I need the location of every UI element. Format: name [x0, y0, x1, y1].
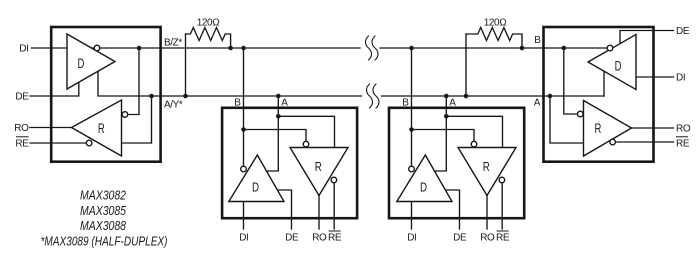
junction node A at U1 — [149, 94, 154, 99]
junction R2 left lead on A bus — [464, 94, 469, 99]
wire RO output U4 — [632, 127, 674, 129]
svg-text:RE: RE — [496, 233, 510, 244]
U3 internal: B to receiver inverting input — [412, 130, 475, 141]
U2 RO pin wire — [318, 196, 320, 230]
junction R2 right lead on B bus — [520, 46, 525, 51]
wire DE input U4 — [620, 31, 674, 44]
svg-text:120Ω: 120Ω — [197, 18, 220, 29]
driver U4 D triangle — [588, 35, 636, 90]
svg-text:RO: RO — [14, 123, 29, 134]
overline RE U4 — [676, 136, 688, 138]
svg-text:R: R — [315, 161, 322, 175]
wire A node down to U4 receiver input — [550, 96, 584, 143]
junction U2 B tap — [241, 46, 246, 51]
svg-text:DI: DI — [676, 73, 685, 84]
svg-text:A: A — [534, 98, 541, 109]
wire A node down to U2 — [267, 96, 279, 171]
svg-text:RE: RE — [15, 139, 29, 150]
svg-text:MAX3088: MAX3088 — [80, 218, 127, 233]
U2 internal: B to receiver inverting input — [244, 130, 307, 141]
bubble U2 driver inverting output — [241, 166, 247, 172]
U3 RE pin wire — [501, 183, 503, 229]
svg-text:B: B — [534, 35, 541, 46]
bubble U2 RE enable — [331, 177, 337, 183]
wire A bus right of break into right box — [382, 95, 605, 97]
driver U2 D triangle — [229, 155, 284, 202]
junction node B at U1 — [137, 46, 142, 51]
wire B node down to U2 — [243, 48, 245, 166]
wire RE input U1 — [30, 142, 86, 144]
svg-text:MAX3085: MAX3085 — [80, 203, 127, 218]
wire node B junction down to U1 receiver inverting input — [128, 48, 139, 115]
bubble U4 driver inverting output — [607, 45, 613, 51]
wire A node down to U3 — [435, 96, 447, 171]
wire RE input U4 — [616, 141, 674, 143]
overline RE U3 — [497, 230, 509, 232]
junction U3 A tap — [444, 94, 449, 99]
resistor R1 120ohm left lead to A line — [185, 34, 187, 96]
receiver U1 R triangle — [72, 100, 122, 156]
receiver U4 R triangle — [584, 101, 632, 157]
svg-text:RE: RE — [328, 233, 342, 244]
svg-text:RE: RE — [676, 139, 690, 150]
U3 RO pin wire — [486, 196, 488, 230]
svg-text:B: B — [402, 98, 409, 109]
junction U3 internal B node — [409, 127, 414, 132]
wire U4 driver Y output to A node — [603, 71, 605, 96]
svg-text:R: R — [595, 120, 602, 136]
svg-text:D: D — [78, 55, 85, 71]
bubble U4 RE enable — [610, 139, 616, 145]
junction U2 A tap — [276, 94, 281, 99]
svg-text:RO: RO — [312, 233, 327, 244]
right transceiver box U4 — [544, 27, 654, 162]
resistor R2 body — [466, 28, 522, 49]
junction R1 right lead on B bus — [228, 46, 233, 51]
wire DI input U4 — [636, 76, 674, 78]
U2 internal: A to receiver input — [278, 116, 334, 147]
junction node B at U4 — [562, 46, 567, 51]
junction U3 internal A node — [444, 114, 449, 119]
receiver U2 R triangle — [290, 148, 348, 196]
middle transceiver box U3 — [389, 108, 524, 218]
break symbol top bus — [366, 36, 372, 60]
U3 DI pin wire — [411, 202, 413, 230]
middle transceiver box U2 — [222, 108, 357, 218]
wire DE input U1 — [30, 82, 79, 96]
wire RO output U1 — [30, 127, 72, 129]
U3 internal: A to receiver input — [446, 116, 502, 147]
svg-text:D: D — [420, 181, 427, 195]
overline RE U1 — [16, 136, 29, 138]
wire DI input U1 — [32, 47, 68, 49]
junction R1 left lead on A bus — [183, 94, 188, 99]
svg-text:120Ω: 120Ω — [484, 18, 507, 29]
break symbol bottom bus — [367, 84, 373, 108]
wire U1 driver Y output to A bus — [98, 71, 152, 96]
resistor R1 body — [186, 28, 231, 49]
wire B node down to U3 — [411, 48, 413, 166]
svg-text:A: A — [449, 98, 456, 109]
wire B bus right of break to right box — [380, 47, 617, 49]
svg-text:DI: DI — [239, 233, 248, 244]
bubble U1 receiver inverting input — [122, 112, 128, 118]
svg-text:A: A — [281, 98, 288, 109]
wire B node down to U4 receiver inverting input — [564, 48, 577, 114]
junction node A at U4 — [548, 94, 553, 99]
bubble U1 RE enable — [86, 140, 92, 146]
wire U1 driver inverting output to B bus — [90, 47, 361, 49]
svg-text:D: D — [615, 58, 622, 74]
junction U2 internal A node — [276, 114, 281, 119]
junction U3 B tap — [409, 46, 414, 51]
left transceiver box U1 — [51, 27, 160, 162]
U3 DE pin wire — [445, 190, 459, 229]
wire A bus from U1 to break — [152, 95, 362, 97]
wire node A down to U1 receiver input — [122, 96, 152, 143]
svg-text:DE: DE — [453, 233, 467, 244]
bubble U1 driver inverting output — [94, 45, 100, 51]
junction U2 internal B node — [241, 127, 246, 132]
svg-text:D: D — [252, 181, 259, 195]
bubble U3 receiver inverting input — [471, 141, 477, 147]
driver U1 D triangle — [67, 34, 115, 89]
bubble U3 RE enable — [499, 177, 505, 183]
bubble U2 receiver inverting input — [303, 141, 309, 147]
svg-text:A/Y*: A/Y* — [164, 100, 183, 111]
svg-text:*MAX3089 (HALF-DUPLEX): *MAX3089 (HALF-DUPLEX) — [41, 234, 168, 249]
driver U3 D triangle — [397, 155, 452, 202]
svg-text:RO: RO — [676, 124, 691, 135]
svg-text:DE: DE — [285, 233, 299, 244]
svg-text:RO: RO — [480, 233, 495, 244]
U2 DE pin wire — [277, 190, 291, 229]
bubble U3 driver inverting output — [409, 166, 415, 172]
U2 RE pin wire — [333, 183, 335, 229]
bubble U4 receiver inverting input — [578, 111, 584, 117]
svg-text:R: R — [483, 161, 490, 175]
overline RE U2 — [329, 230, 341, 232]
resistor R2 120ohm left lead to A line — [465, 34, 467, 96]
svg-text:R: R — [98, 120, 105, 136]
U2 DI pin wire — [243, 202, 245, 230]
svg-text:DE: DE — [15, 92, 29, 103]
svg-text:DI: DI — [19, 44, 28, 55]
svg-text:MAX3082: MAX3082 — [80, 188, 127, 203]
svg-text:DI: DI — [407, 233, 416, 244]
svg-text:DE: DE — [676, 26, 690, 37]
receiver U3 R triangle — [458, 148, 516, 196]
svg-text:B/Z*: B/Z* — [164, 38, 182, 49]
svg-text:B: B — [234, 98, 241, 109]
